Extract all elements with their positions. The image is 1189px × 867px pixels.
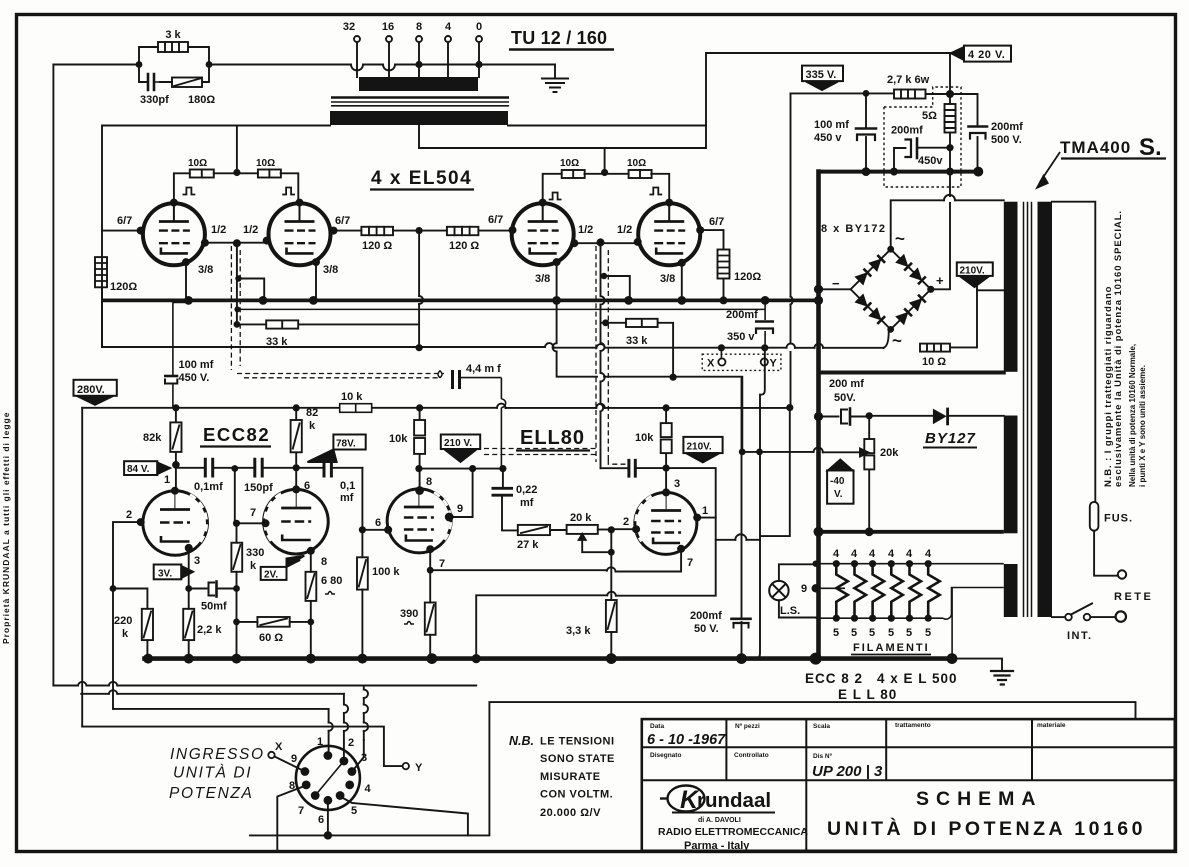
wire V7 pin8 column <box>419 469 421 491</box>
svg-text:4: 4 <box>445 21 452 33</box>
junction nodes bottom <box>143 412 957 665</box>
svg-text:6: 6 <box>318 814 324 826</box>
svg-text:390: 390 <box>400 608 418 620</box>
resistor R 120ohm v4 <box>718 250 730 279</box>
transformer TMA400 core lines <box>1024 202 1032 617</box>
pulse symbol g2 <box>283 188 294 195</box>
svg-text:330pf: 330pf <box>140 94 169 106</box>
wire bridge minus to heavy bus <box>819 288 851 290</box>
svg-text:TU 12 / 160: TU 12 / 160 <box>511 28 607 48</box>
svg-text:280V.: 280V. <box>77 384 105 396</box>
svg-text:200mf: 200mf <box>991 121 1023 133</box>
wire HT thick rail top <box>819 170 979 174</box>
svg-text:5: 5 <box>833 627 839 639</box>
wire 9 to heater <box>816 587 845 589</box>
svg-text:450v: 450v <box>918 155 943 167</box>
svg-text:di A. DAVOLI: di A. DAVOLI <box>698 817 741 824</box>
junction node 3k left <box>136 61 143 68</box>
resistor R 680 <box>306 572 317 601</box>
transformer TU12/160 secondary winding bar <box>359 77 478 91</box>
svg-text:4,4 m f: 4,4 m f <box>466 363 501 375</box>
svg-text:Y: Y <box>770 358 778 370</box>
wire V3-V4 grid link <box>574 242 637 244</box>
wire V6 pin8 down <box>310 551 312 572</box>
wire 420V corner down <box>949 53 951 94</box>
wire 120ohm v1 to bus <box>101 287 103 347</box>
svg-text:32: 32 <box>343 21 355 33</box>
pulse symbol g3 <box>550 193 561 200</box>
terminal X <box>268 752 274 758</box>
resistor R 330k <box>236 523 238 542</box>
svg-text:Scala: Scala <box>813 723 830 730</box>
transformer TMA400 winding bar mains <box>1004 416 1018 534</box>
svg-text:1: 1 <box>317 736 323 748</box>
svg-text:ECC82: ECC82 <box>203 424 270 445</box>
wire heavy vertical chassis <box>816 172 821 659</box>
wire V2 g2 right <box>334 230 362 232</box>
terminal Y inner <box>764 348 766 359</box>
svg-text:450 V.: 450 V. <box>179 372 210 384</box>
capacitor C 200mf 50V rail <box>741 377 743 616</box>
wire V4 g2 right to 120ohm <box>700 230 723 249</box>
svg-text:ECC 8 2: ECC 8 2 <box>805 671 863 686</box>
tube V1 EL504 <box>143 203 205 265</box>
svg-text:materiale: materiale <box>1037 722 1066 729</box>
svg-text:6/7: 6/7 <box>117 215 132 227</box>
svg-text:3/8: 3/8 <box>535 273 550 285</box>
wire filament 4 line <box>816 563 1004 565</box>
junction nodes EL504 row <box>137 169 770 381</box>
terminal RETE top <box>1118 570 1126 578</box>
resistor R 60ohm row <box>237 621 311 623</box>
svg-text:3: 3 <box>674 478 680 490</box>
svg-text:6: 6 <box>375 517 381 529</box>
svg-text:2: 2 <box>126 509 132 521</box>
wire arrow bus to 20k bias <box>742 451 860 453</box>
heater element h6 <box>928 564 940 619</box>
svg-text:200mf: 200mf <box>690 610 722 622</box>
svg-text:10Ω: 10Ω <box>188 158 207 169</box>
wire primary right to 420V riser <box>508 125 706 127</box>
svg-text:−: − <box>832 276 840 291</box>
capacitor C 200mf 350v <box>755 300 774 347</box>
tube V4 EL504 <box>638 203 700 265</box>
junction node 3k right <box>206 61 213 68</box>
wire V3 cathode long drop <box>557 262 597 377</box>
wire 210V AC tap <box>977 289 1004 291</box>
junction tap 0 <box>475 61 482 68</box>
svg-text:2: 2 <box>623 516 629 528</box>
wire bus377 drop right column <box>741 377 743 452</box>
svg-text:ELL80: ELL80 <box>520 427 585 449</box>
flag 210V AC <box>957 262 993 287</box>
wire primary left to left column <box>102 126 330 348</box>
resistor 180ohm slashed box <box>172 78 202 88</box>
svg-text:450 v: 450 v <box>814 132 842 144</box>
resistor R 2.2k <box>188 589 190 609</box>
wire 280V bus <box>82 404 790 727</box>
svg-text:1: 1 <box>702 505 708 517</box>
svg-text:4: 4 <box>833 548 840 560</box>
flag 3V <box>154 565 193 580</box>
wire AC top from transformer with hump over riser <box>891 200 944 249</box>
dashed corner to ELL80 <box>608 460 629 464</box>
capacitor C 4.4mf b <box>601 467 628 469</box>
connector CN1 input socket <box>296 746 360 810</box>
resistor R 33k b <box>626 319 658 327</box>
junction tap 8 <box>415 61 422 68</box>
svg-text:4: 4 <box>888 548 895 560</box>
ground symbol top <box>554 65 556 79</box>
wire screen feed riser <box>236 126 238 173</box>
svg-text:33 k: 33 k <box>626 335 648 347</box>
capacitor C 50mf <box>189 588 207 590</box>
svg-text:1/2: 1/2 <box>243 224 258 236</box>
svg-text:2,2 k: 2,2 k <box>197 624 222 636</box>
dashed group box psu <box>884 87 961 187</box>
wire bottom collector <box>250 702 1136 835</box>
resistor R 82k a <box>170 408 181 491</box>
svg-text:8 x BY172: 8 x BY172 <box>821 223 886 235</box>
svg-text:150pf: 150pf <box>244 482 273 494</box>
flag 210V ell <box>683 437 722 462</box>
svg-text:V.: V. <box>834 489 843 500</box>
capacitor C 150pf <box>255 459 262 476</box>
svg-text:335 V.: 335 V. <box>806 69 837 81</box>
svg-text:3V.: 3V. <box>158 569 172 580</box>
svg-text:rundaal: rundaal <box>697 789 771 812</box>
transformer TU12/160 primary winding bar <box>330 111 508 125</box>
svg-text:5: 5 <box>888 627 894 639</box>
svg-text:20 k: 20 k <box>570 512 592 524</box>
wire V7 pin6 left <box>362 529 388 531</box>
svg-text:CON VOLTM.: CON VOLTM. <box>540 789 613 801</box>
svg-text:RETE: RETE <box>1114 591 1153 603</box>
wire Y drop column <box>760 348 765 452</box>
arrow to transformer <box>1040 152 1060 182</box>
wire pin1 column to bus 595 <box>476 518 716 659</box>
junction node X <box>718 344 725 351</box>
flag 280V <box>74 380 117 405</box>
svg-text:~: ~ <box>892 331 902 350</box>
svg-text:5: 5 <box>925 627 931 639</box>
flag -40V <box>827 460 853 504</box>
svg-text:3/8: 3/8 <box>660 273 675 285</box>
resistor R 120ohm h1 <box>361 227 393 235</box>
svg-text:POTENZA: POTENZA <box>169 785 253 802</box>
tube V5 ECC82a <box>143 491 208 556</box>
svg-text:3: 3 <box>194 555 200 567</box>
svg-text:5: 5 <box>906 627 912 639</box>
transformer TMA400 winding bar HV <box>1004 202 1018 372</box>
svg-text:2V.: 2V. <box>264 570 278 581</box>
fuse FUS <box>1090 502 1099 531</box>
wire 335V rail <box>791 92 895 94</box>
wire cathode drops <box>186 262 682 300</box>
resistor R 33k a <box>266 320 298 328</box>
wire pin2 riser <box>343 694 345 757</box>
svg-text:500 V.: 500 V. <box>991 134 1022 146</box>
svg-text:6/7: 6/7 <box>709 216 724 228</box>
wire 335V riser down <box>790 93 792 407</box>
svg-text:Controllato: Controllato <box>734 752 769 759</box>
svg-text:78V.: 78V. <box>336 439 356 450</box>
svg-text:4: 4 <box>851 548 858 560</box>
svg-text:4 20 V.: 4 20 V. <box>968 49 1005 61</box>
wire pin6 down <box>327 802 329 835</box>
svg-text:9: 9 <box>457 503 463 515</box>
capacitor 330pf <box>148 74 154 90</box>
potentiometer R 20k bias <box>864 416 874 531</box>
wire rail to ground right <box>952 659 1002 670</box>
wire 420V riser <box>706 53 950 148</box>
wire screen row tubes 1-2 <box>174 173 298 202</box>
svg-text:INT.: INT. <box>1067 630 1093 642</box>
diode D bridge 8 <box>910 295 926 311</box>
svg-text:3/8: 3/8 <box>323 264 338 276</box>
svg-text:FUS.: FUS. <box>1104 513 1133 525</box>
svg-text:6: 6 <box>304 480 310 492</box>
transformer TMA400 secondary bar <box>1038 202 1053 617</box>
svg-text:8: 8 <box>416 21 422 33</box>
junction nodes row2 <box>110 404 794 625</box>
wire INT row <box>1052 616 1065 618</box>
output transformer TU12/160 secondary taps <box>354 36 360 42</box>
wire 33k row pair2 <box>601 323 674 377</box>
svg-text:1/2: 1/2 <box>617 224 632 236</box>
svg-text:BY127: BY127 <box>925 430 976 447</box>
capacitor C 0.1mf a <box>205 459 212 476</box>
wire primary centre down and right <box>419 126 706 149</box>
resistor R 10ohm secondary <box>920 344 977 352</box>
svg-text:2,7 k 6w: 2,7 k 6w <box>887 74 930 86</box>
capacitor C 200mf 50V bias <box>819 409 1004 425</box>
wire bus A <box>53 685 476 687</box>
wire cathode thick bus <box>102 299 819 303</box>
svg-text:100 mf: 100 mf <box>179 359 214 371</box>
diode D bridge 3 <box>896 255 912 271</box>
pulse symbol g4 <box>650 188 661 195</box>
svg-text:6 - 10 -1967: 6 - 10 -1967 <box>647 732 726 748</box>
resistor R 10ohm s1 <box>190 170 214 178</box>
flag 335V <box>802 66 843 90</box>
tube V8 ELL80b <box>635 492 697 554</box>
wire pin8 out <box>277 786 304 852</box>
dashed pair horizontal to 4.4mf <box>237 374 444 378</box>
wire pin2 jog to 220k <box>113 589 147 609</box>
svg-text:8: 8 <box>321 556 327 568</box>
wire grid pair 2 drop <box>600 242 602 468</box>
transformer core laminations <box>331 98 509 106</box>
resistor R 2.7k 6w <box>894 90 926 99</box>
svg-text:0,1: 0,1 <box>340 480 355 492</box>
svg-text:esclusivamente la Unità di pot: esclusivamente la Unità di potenza 10160… <box>1113 210 1124 487</box>
svg-text:RADIO ELETTROMECCANICA: RADIO ELETTROMECCANICA <box>658 826 808 838</box>
svg-text:6/7: 6/7 <box>335 215 350 227</box>
svg-text:200mf: 200mf <box>726 309 758 321</box>
svg-text:20k: 20k <box>880 447 899 459</box>
resistor R 10ohm s3 <box>562 170 585 178</box>
svg-text:20.000 Ω/V: 20.000 Ω/V <box>540 807 601 819</box>
wire X to pin9 <box>275 757 304 771</box>
grid bus ELL80 <box>419 468 503 470</box>
capacitor C 100mf 450V left <box>164 300 190 407</box>
heater element h3 <box>873 564 885 619</box>
wire bus 571 to ELL80b pin7 <box>430 549 681 572</box>
svg-text:10 k: 10 k <box>341 391 363 403</box>
tube V2 EL504 <box>269 203 331 265</box>
X Y dotted box <box>702 354 781 370</box>
diode D BY127 <box>933 409 947 425</box>
svg-text:Dis Nº: Dis Nº <box>813 753 833 760</box>
wire screen row tubes 3-4 <box>543 174 670 203</box>
svg-text:Disegnato: Disegnato <box>650 752 681 759</box>
svg-text:82: 82 <box>306 407 318 419</box>
svg-text:7: 7 <box>298 805 304 817</box>
svg-text:5: 5 <box>869 627 875 639</box>
flag 2V <box>261 556 305 580</box>
svg-text:FILAMENTI: FILAMENTI <box>853 642 930 654</box>
svg-text:10k: 10k <box>635 432 654 444</box>
svg-text:4 x E L 500: 4 x E L 500 <box>877 671 958 686</box>
connector pins <box>301 751 357 840</box>
svg-text:X: X <box>275 741 283 753</box>
svg-text:E L L 80: E L L 80 <box>838 687 897 702</box>
svg-text:6/7: 6/7 <box>488 214 503 226</box>
svg-text:0,22: 0,22 <box>516 484 537 496</box>
terminal RETE bottom <box>1116 611 1126 621</box>
svg-text:N.B.: N.B. <box>509 734 534 748</box>
wire 539 link <box>760 408 790 536</box>
flag 78V <box>308 435 366 463</box>
wire pin1 riser <box>328 709 330 752</box>
svg-text:UP 200 | 3: UP 200 | 3 <box>812 763 883 780</box>
resistor R 100k <box>361 530 363 558</box>
diode D bridge 5 <box>855 294 871 310</box>
connector key line <box>315 761 344 796</box>
potentiometer R 20k input <box>567 525 598 534</box>
wire jog pair2 <box>604 276 630 300</box>
svg-text:84 V.: 84 V. <box>127 464 150 475</box>
svg-text:210V.: 210V. <box>960 266 985 277</box>
svg-text:S.: S. <box>1139 134 1162 161</box>
terminal Y <box>403 763 409 769</box>
terminal X inner <box>720 348 722 359</box>
svg-text:60 Ω: 60 Ω <box>259 632 283 644</box>
svg-text:3/8: 3/8 <box>198 264 213 276</box>
capacitor C 0.1mf b <box>324 459 331 476</box>
svg-text:SONO STATE: SONO STATE <box>540 753 615 765</box>
resistor R 10k inline bus <box>340 404 372 413</box>
grid bus ECC82 with caps <box>176 459 363 530</box>
junction nodes psu <box>814 90 983 333</box>
resistor R 120ohm h2 <box>447 227 479 235</box>
svg-text:120 Ω: 120 Ω <box>449 240 479 252</box>
svg-text:7: 7 <box>687 557 693 569</box>
wire 10ohm to AC tap riser <box>976 290 978 347</box>
svg-text:mf: mf <box>520 497 534 509</box>
svg-text:LE TENSIONI: LE TENSIONI <box>540 736 615 748</box>
svg-text:200mf: 200mf <box>891 125 923 137</box>
capacitor C 200mf 450v inner <box>919 147 951 149</box>
tube V6 ECC82b <box>264 489 329 554</box>
wire 280V left drop <box>81 408 83 727</box>
resistor R 10ohm s4 <box>629 170 652 178</box>
title block small headers <box>650 722 1066 760</box>
wire jog pair1 <box>239 279 265 301</box>
svg-text:2: 2 <box>348 737 354 749</box>
svg-text:10k: 10k <box>389 433 408 445</box>
svg-text:27 k: 27 k <box>517 539 539 551</box>
flag 420V <box>951 46 1011 62</box>
svg-text:10 Ω: 10 Ω <box>922 356 946 368</box>
wire V6 pin7 left column <box>234 469 236 524</box>
wire V1 grid left <box>102 230 141 232</box>
flag 210V ecc <box>441 435 480 462</box>
svg-text:X: X <box>707 358 715 370</box>
svg-text:6 80: 6 80 <box>321 575 342 587</box>
wire pin2 column down to bus C <box>112 589 114 709</box>
svg-text:100 mf: 100 mf <box>814 119 849 131</box>
svg-text:9: 9 <box>801 583 807 595</box>
svg-text:Proprietà KRUNDAAL a tutti gli: Proprietà KRUNDAAL a tutti gli effetti d… <box>1 412 11 644</box>
wire thick transformer mid tap <box>819 371 1004 375</box>
svg-text:210V.: 210V. <box>687 442 712 453</box>
wire top feedback to 3k node <box>53 64 139 66</box>
svg-text:180Ω: 180Ω <box>188 94 215 106</box>
svg-text:Y: Y <box>415 762 423 774</box>
heater element h5 <box>910 564 922 619</box>
svg-text:Parma - Italy: Parma - Italy <box>684 840 750 852</box>
svg-text:UNITÀ DI POTENZA 10160: UNITÀ DI POTENZA 10160 <box>827 817 1146 840</box>
svg-text:+: + <box>936 273 944 288</box>
svg-text:4: 4 <box>365 783 372 795</box>
svg-text:0,1mf: 0,1mf <box>194 481 223 493</box>
lamp LS loop <box>779 564 816 617</box>
wire grid pair 1 drop <box>236 243 238 324</box>
capacitor C 4.4mf coupling top <box>438 370 506 467</box>
svg-text:1: 1 <box>164 474 170 486</box>
resistor R 82k b <box>291 408 302 490</box>
dashed pair tubes 1-2 <box>231 246 629 464</box>
diode D bridge 1 <box>855 269 871 285</box>
wire V5 pin3 down <box>188 548 190 589</box>
svg-text:120 Ω: 120 Ω <box>362 240 392 252</box>
svg-text:-40: -40 <box>830 476 845 487</box>
wire V8 pin3 top <box>665 468 667 492</box>
svg-text:3: 3 <box>361 752 367 764</box>
svg-text:4: 4 <box>869 548 876 560</box>
svg-text:50V.: 50V. <box>834 392 856 404</box>
diode D bridge 6 <box>869 308 885 324</box>
svg-text:5Ω: 5Ω <box>922 110 937 122</box>
svg-text:7: 7 <box>439 558 445 570</box>
svg-text:82k: 82k <box>143 432 162 444</box>
transformer outline right <box>1052 202 1095 502</box>
capacitor C 100mf 450v <box>865 93 867 127</box>
wire grid bus 377 <box>604 377 742 452</box>
svg-text:10Ω: 10Ω <box>256 158 275 169</box>
svg-text:3 k: 3 k <box>165 29 181 41</box>
resistor R 27k <box>518 525 550 535</box>
resistor R 10k b <box>661 408 672 468</box>
svg-text:330: 330 <box>246 547 264 559</box>
wire V7 pin7 down <box>429 549 431 570</box>
diode D bridge 4 <box>910 268 926 284</box>
svg-text:L.S.: L.S. <box>780 605 800 617</box>
wire filament 5 line <box>816 588 1004 619</box>
transformer TMA400 winding bar filament <box>1004 564 1018 617</box>
